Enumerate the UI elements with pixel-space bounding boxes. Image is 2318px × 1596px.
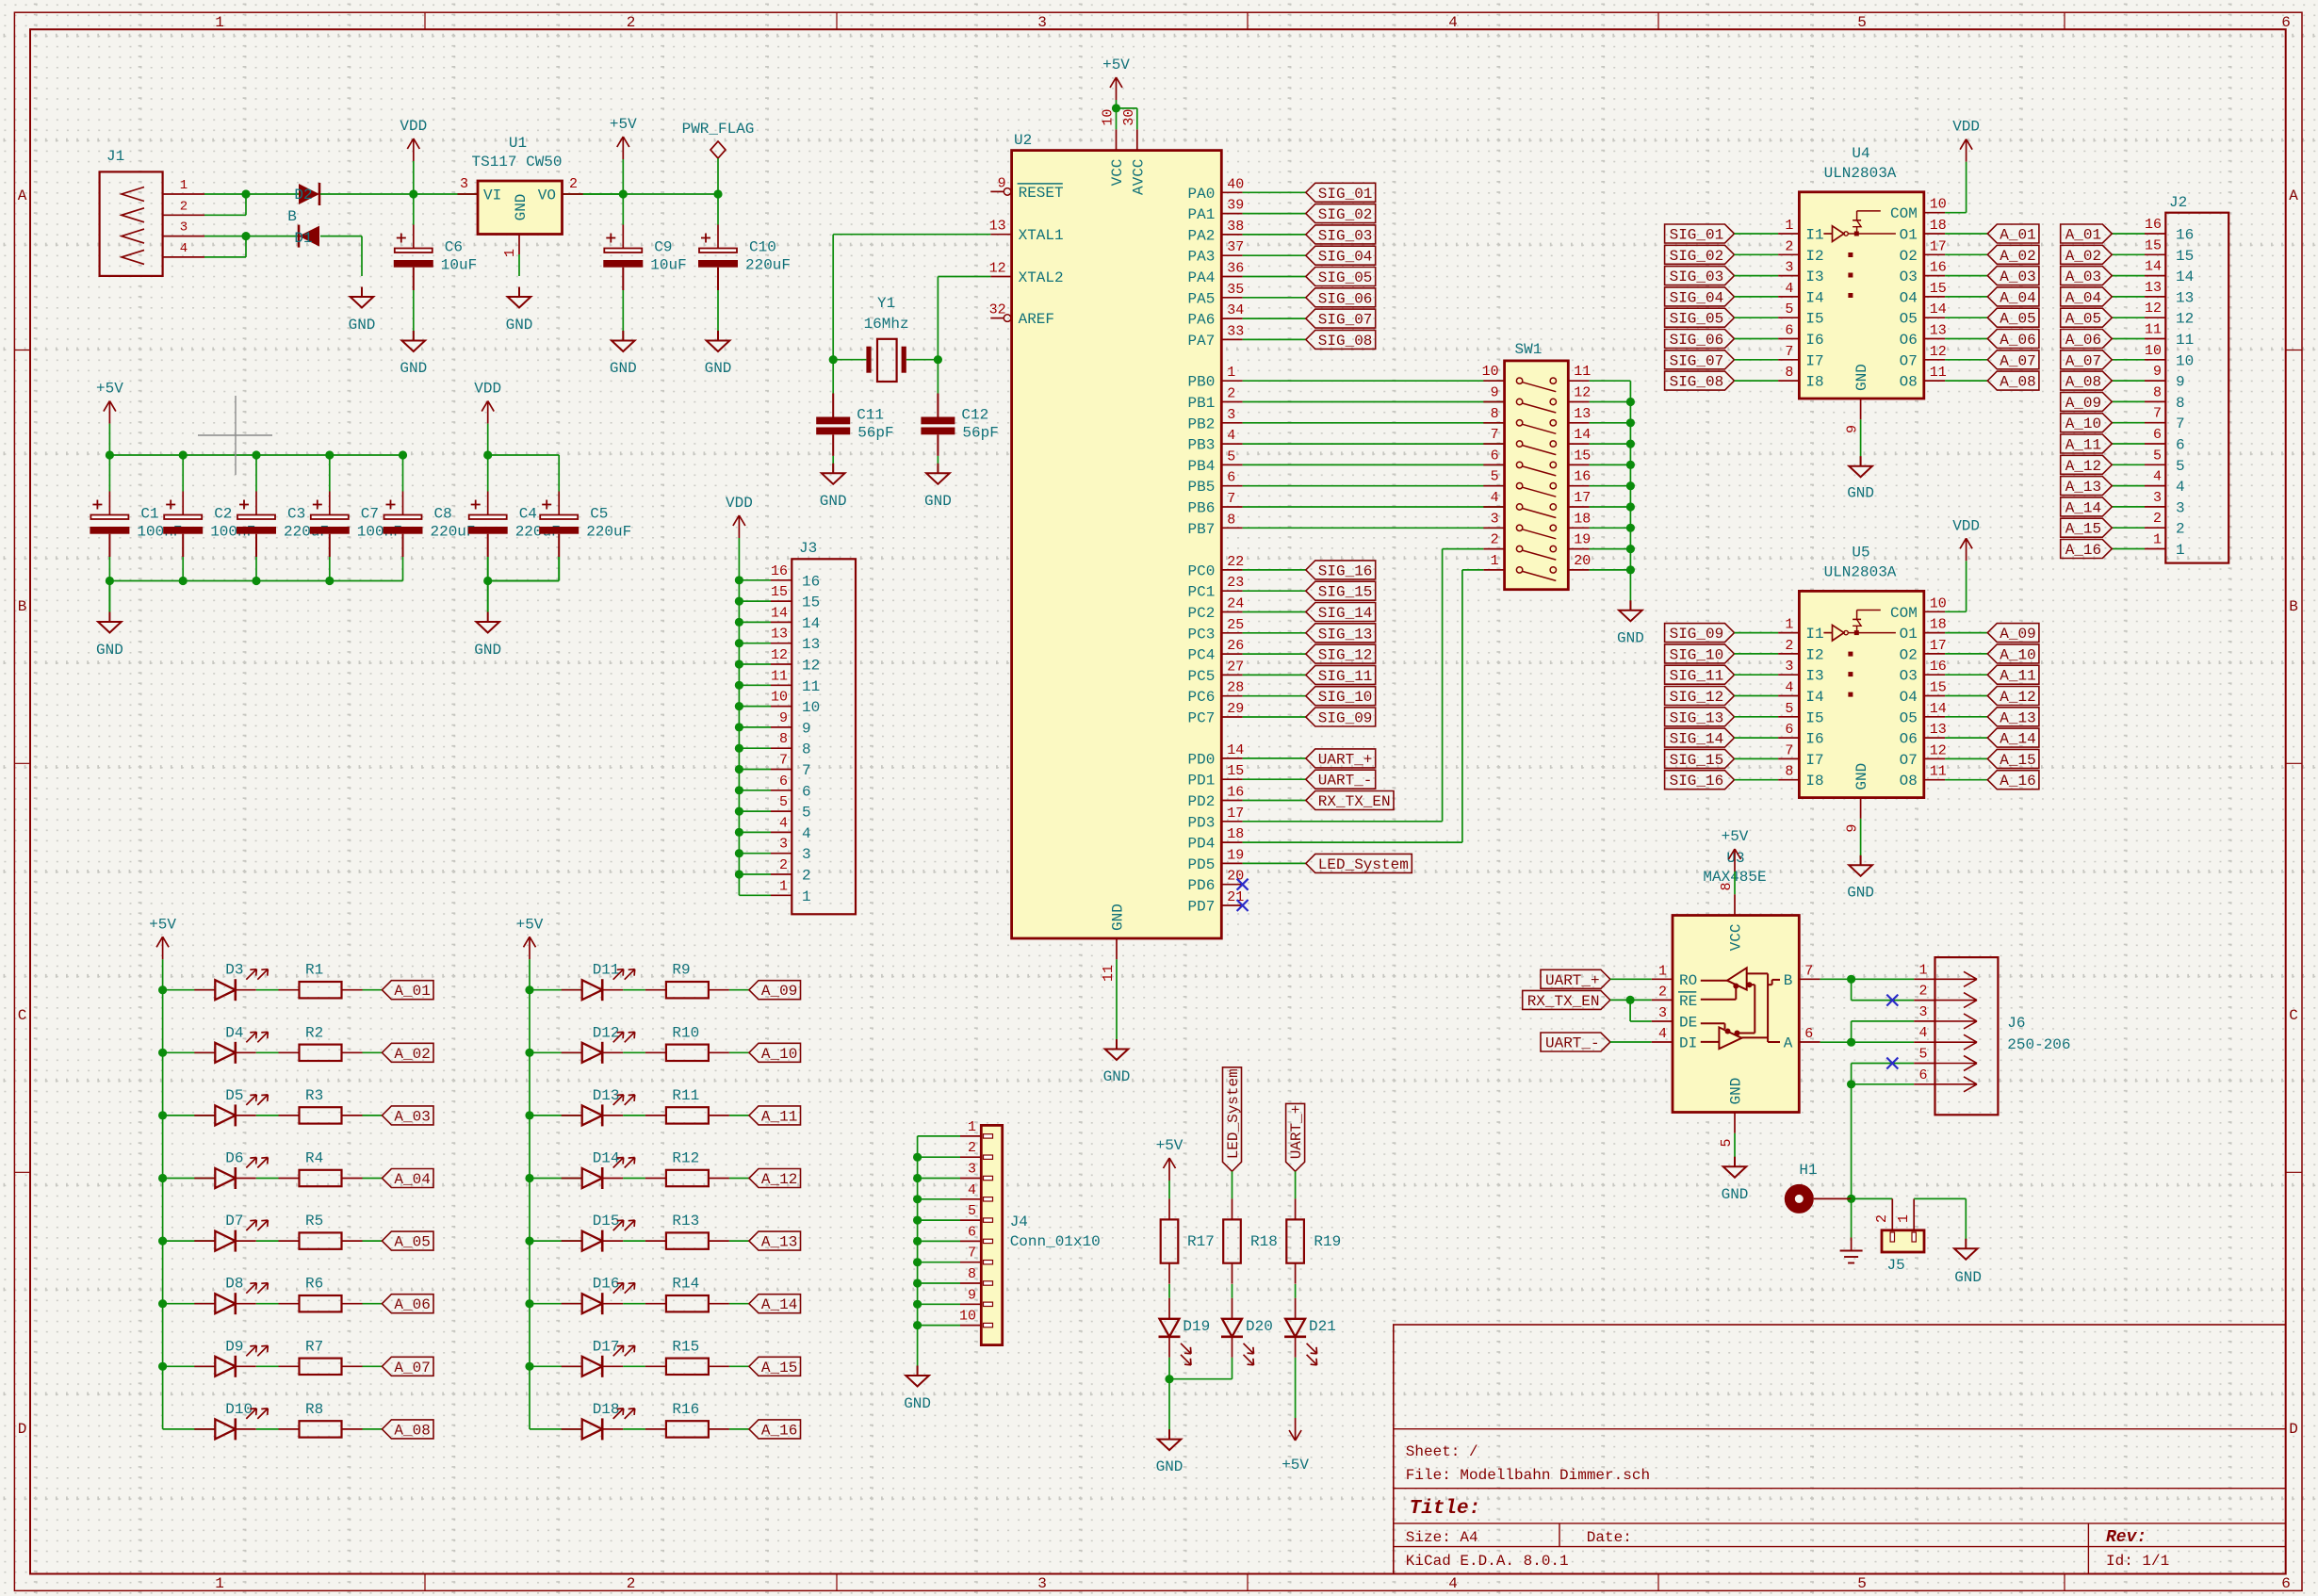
svg-text:10: 10 xyxy=(1930,595,1947,611)
svg-text:A_03: A_03 xyxy=(2000,269,2035,285)
svg-text:GND: GND xyxy=(1617,630,1644,647)
svg-text:A_10: A_10 xyxy=(2000,646,2035,663)
svg-text:RX_TX_EN: RX_TX_EN xyxy=(1318,793,1391,810)
svg-text:1: 1 xyxy=(2153,532,2162,548)
svg-text:I8: I8 xyxy=(1805,374,1823,391)
svg-text:30: 30 xyxy=(1121,109,1137,126)
svg-text:17: 17 xyxy=(1930,638,1947,654)
svg-text:R11: R11 xyxy=(672,1087,699,1104)
svg-text:GND: GND xyxy=(904,1395,931,1412)
svg-text:J4: J4 xyxy=(1010,1213,1028,1230)
svg-text:7: 7 xyxy=(802,762,811,779)
svg-text:23: 23 xyxy=(1227,575,1244,591)
svg-text:SIG_08: SIG_08 xyxy=(1670,374,1724,391)
svg-text:14: 14 xyxy=(802,615,820,632)
svg-text:GND: GND xyxy=(1853,763,1870,790)
svg-text:A_14: A_14 xyxy=(2000,731,2035,748)
svg-text:A_01: A_01 xyxy=(2000,227,2035,244)
svg-text:SIG_08: SIG_08 xyxy=(1318,333,1373,350)
svg-text:R3: R3 xyxy=(305,1087,323,1104)
svg-text:8: 8 xyxy=(1719,882,1735,890)
svg-text:29: 29 xyxy=(1227,701,1244,717)
svg-text:I6: I6 xyxy=(1805,731,1823,748)
svg-text:GND: GND xyxy=(705,360,732,377)
svg-text:6: 6 xyxy=(2281,14,2291,31)
svg-text:+5V: +5V xyxy=(1281,1457,1309,1474)
svg-text:SIG_07: SIG_07 xyxy=(1670,352,1724,369)
svg-text:RX_TX_EN: RX_TX_EN xyxy=(1527,993,1600,1010)
svg-text:R14: R14 xyxy=(672,1276,699,1293)
svg-text:14: 14 xyxy=(771,605,788,621)
svg-text:40: 40 xyxy=(1227,176,1244,192)
svg-text:C: C xyxy=(2289,1007,2298,1024)
svg-text:SIG_02: SIG_02 xyxy=(1670,248,1724,265)
svg-text:1: 1 xyxy=(968,1119,976,1135)
svg-text:GND: GND xyxy=(1103,1068,1131,1085)
svg-text:GND: GND xyxy=(1847,485,1874,502)
svg-text:15: 15 xyxy=(1227,763,1244,779)
svg-text:U2: U2 xyxy=(1014,132,1032,149)
svg-text:PA5: PA5 xyxy=(1187,290,1215,307)
svg-text:14: 14 xyxy=(2176,269,2194,285)
svg-text:SIG_11: SIG_11 xyxy=(1318,668,1373,685)
svg-text:D16: D16 xyxy=(593,1276,620,1293)
svg-text:15: 15 xyxy=(771,584,788,600)
svg-text:SIG_12: SIG_12 xyxy=(1318,647,1373,664)
svg-text:B: B xyxy=(2289,598,2298,615)
svg-text:3: 3 xyxy=(2176,499,2185,516)
svg-text:R10: R10 xyxy=(672,1024,699,1041)
svg-text:6: 6 xyxy=(2281,1575,2291,1592)
svg-text:COM: COM xyxy=(1890,605,1918,622)
svg-text:16: 16 xyxy=(2176,227,2194,244)
svg-text:Size: A4: Size: A4 xyxy=(1406,1529,1478,1546)
svg-text:D: D xyxy=(18,1421,27,1438)
svg-text:38: 38 xyxy=(1227,219,1244,235)
svg-text:7: 7 xyxy=(1227,491,1235,507)
svg-text:AVCC: AVCC xyxy=(1130,159,1147,195)
svg-text:GND: GND xyxy=(924,493,952,510)
svg-text:3: 3 xyxy=(460,176,468,192)
svg-text:16: 16 xyxy=(1574,469,1591,485)
svg-text:D8: D8 xyxy=(225,1276,243,1293)
svg-text:A_10: A_10 xyxy=(2065,415,2101,432)
svg-text:O5: O5 xyxy=(1900,311,1918,328)
svg-text:PD5: PD5 xyxy=(1187,856,1215,873)
svg-text:A: A xyxy=(2289,187,2298,204)
svg-text:5: 5 xyxy=(1491,469,1499,485)
svg-text:A_10: A_10 xyxy=(761,1046,797,1063)
svg-text:PB1: PB1 xyxy=(1187,395,1215,412)
svg-text:10uF: 10uF xyxy=(650,257,686,274)
svg-text:A_06: A_06 xyxy=(2065,332,2101,349)
svg-text:2: 2 xyxy=(627,1575,636,1592)
svg-text:4: 4 xyxy=(1227,428,1235,444)
svg-text:3: 3 xyxy=(968,1162,976,1178)
svg-text:9: 9 xyxy=(2153,364,2162,380)
svg-text:D5: D5 xyxy=(225,1087,243,1104)
svg-text:R9: R9 xyxy=(672,962,690,979)
svg-text:D3: D3 xyxy=(225,962,243,979)
svg-text:35: 35 xyxy=(1227,282,1244,298)
svg-text:7: 7 xyxy=(2153,406,2162,422)
svg-text:A: A xyxy=(18,187,27,204)
svg-text:GND: GND xyxy=(400,360,427,377)
svg-text:PD4: PD4 xyxy=(1187,836,1215,853)
svg-text:A_02: A_02 xyxy=(2065,248,2101,265)
svg-text:SIG_10: SIG_10 xyxy=(1670,646,1724,663)
svg-text:11: 11 xyxy=(1930,365,1947,381)
svg-text:SIG_07: SIG_07 xyxy=(1318,312,1373,329)
svg-text:DE: DE xyxy=(1679,1015,1697,1032)
svg-text:A_09: A_09 xyxy=(2065,395,2101,412)
svg-text:13: 13 xyxy=(802,636,820,653)
svg-text:3: 3 xyxy=(180,220,188,236)
svg-text:A_04: A_04 xyxy=(2000,289,2035,306)
svg-text:D12: D12 xyxy=(593,1024,620,1041)
svg-text:10: 10 xyxy=(1482,364,1499,380)
svg-text:D18: D18 xyxy=(593,1401,620,1418)
svg-text:TS117 CW50: TS117 CW50 xyxy=(471,154,562,171)
svg-text:3: 3 xyxy=(1658,1005,1667,1021)
svg-text:9: 9 xyxy=(968,1287,976,1303)
svg-text:SIG_09: SIG_09 xyxy=(1318,710,1373,727)
svg-text:A_11: A_11 xyxy=(2065,437,2101,454)
svg-text:A_07: A_07 xyxy=(2000,352,2035,369)
svg-text:A_02: A_02 xyxy=(2000,248,2035,265)
svg-text:6: 6 xyxy=(802,783,811,800)
svg-text:A_12: A_12 xyxy=(2000,689,2035,706)
svg-text:PB7: PB7 xyxy=(1187,521,1215,538)
svg-text:56pF: 56pF xyxy=(857,425,893,442)
svg-text:14: 14 xyxy=(1930,701,1947,717)
svg-text:A_03: A_03 xyxy=(394,1108,430,1125)
svg-text:O2: O2 xyxy=(1900,248,1918,265)
svg-text:PA3: PA3 xyxy=(1187,249,1215,266)
svg-text:A_03: A_03 xyxy=(2065,269,2101,285)
svg-text:16: 16 xyxy=(802,573,820,590)
svg-text:O1: O1 xyxy=(1900,626,1918,643)
svg-text:5: 5 xyxy=(802,805,811,822)
svg-text:A_06: A_06 xyxy=(394,1296,430,1313)
svg-text:PD3: PD3 xyxy=(1187,814,1215,831)
svg-text:A_13: A_13 xyxy=(2065,479,2101,496)
svg-text:R12: R12 xyxy=(672,1150,699,1167)
svg-text:3: 3 xyxy=(1785,659,1793,675)
svg-text:17: 17 xyxy=(1574,490,1591,506)
svg-text:4: 4 xyxy=(1658,1026,1667,1042)
svg-text:PB6: PB6 xyxy=(1187,500,1215,517)
svg-text:D4: D4 xyxy=(225,1024,243,1041)
svg-text:18: 18 xyxy=(1930,218,1947,234)
svg-text:C2: C2 xyxy=(214,506,232,523)
svg-text:UART_+: UART_+ xyxy=(1288,1105,1305,1160)
svg-text:R18: R18 xyxy=(1250,1233,1278,1250)
svg-text:+5V: +5V xyxy=(610,116,637,133)
svg-text:O5: O5 xyxy=(1900,709,1918,726)
svg-text:A_07: A_07 xyxy=(2065,352,2101,369)
svg-text:8: 8 xyxy=(1491,406,1499,422)
svg-text:4: 4 xyxy=(2153,469,2162,485)
svg-text:PD6: PD6 xyxy=(1187,877,1215,894)
svg-text:O6: O6 xyxy=(1900,332,1918,349)
svg-text:Date:: Date: xyxy=(1587,1529,1632,1546)
svg-text:3: 3 xyxy=(1037,1575,1047,1592)
svg-text:A_08: A_08 xyxy=(394,1422,430,1439)
svg-text:14: 14 xyxy=(1930,301,1947,318)
svg-text:D6: D6 xyxy=(225,1150,243,1167)
svg-text:2: 2 xyxy=(1918,984,1927,1000)
svg-text:SIG_10: SIG_10 xyxy=(1318,689,1373,706)
svg-text:D2: D2 xyxy=(294,187,312,204)
svg-text:ULN2803A: ULN2803A xyxy=(1824,165,1897,182)
svg-text:ULN2803A: ULN2803A xyxy=(1824,563,1897,580)
svg-text:8: 8 xyxy=(1785,365,1793,381)
svg-text:O8: O8 xyxy=(1900,773,1918,790)
svg-text:SIG_04: SIG_04 xyxy=(1318,249,1373,266)
svg-text:Conn_01x10: Conn_01x10 xyxy=(1010,1233,1101,1250)
svg-text:U4: U4 xyxy=(1852,145,1869,162)
svg-text:C: C xyxy=(18,1007,27,1024)
svg-text:17: 17 xyxy=(1930,238,1947,254)
svg-text:22: 22 xyxy=(1227,554,1244,570)
svg-text:PA6: PA6 xyxy=(1187,312,1215,329)
svg-text:A_08: A_08 xyxy=(2065,374,2101,391)
svg-text:3: 3 xyxy=(802,846,811,863)
svg-text:VDD: VDD xyxy=(400,118,427,135)
svg-text:VO: VO xyxy=(538,187,556,204)
svg-text:R13: R13 xyxy=(672,1213,699,1230)
svg-text:14: 14 xyxy=(1574,427,1591,443)
svg-text:4: 4 xyxy=(802,825,811,842)
svg-text:A_07: A_07 xyxy=(394,1360,430,1376)
svg-text:C9: C9 xyxy=(654,239,672,256)
svg-text:RO: RO xyxy=(1679,972,1697,989)
svg-text:XTAL1: XTAL1 xyxy=(1019,227,1064,244)
svg-text:3: 3 xyxy=(1037,14,1047,31)
svg-text:A_16: A_16 xyxy=(2000,773,2035,790)
svg-text:PC4: PC4 xyxy=(1187,647,1215,664)
svg-text:13: 13 xyxy=(2176,289,2194,306)
svg-text:GND: GND xyxy=(1847,884,1874,901)
svg-text:KiCad E.D.A. 8.0.1: KiCad E.D.A. 8.0.1 xyxy=(1406,1553,1569,1570)
svg-text:Y1: Y1 xyxy=(877,295,895,312)
svg-text:9: 9 xyxy=(802,720,811,737)
svg-text:16Mhz: 16Mhz xyxy=(864,316,909,333)
svg-text:15: 15 xyxy=(1930,680,1947,696)
svg-text:2: 2 xyxy=(802,868,811,885)
svg-text:8: 8 xyxy=(2176,395,2185,412)
svg-text:D9: D9 xyxy=(225,1338,243,1355)
svg-text:GND: GND xyxy=(349,317,376,334)
svg-text:C7: C7 xyxy=(361,506,379,523)
svg-text:O7: O7 xyxy=(1900,352,1918,369)
svg-text:11: 11 xyxy=(802,678,820,695)
svg-text:15: 15 xyxy=(2145,237,2162,253)
svg-text:7: 7 xyxy=(1804,963,1813,979)
svg-text:PB0: PB0 xyxy=(1187,374,1215,391)
svg-text:O7: O7 xyxy=(1900,752,1918,769)
svg-text:GND: GND xyxy=(610,360,637,377)
svg-text:4: 4 xyxy=(779,815,788,831)
svg-text:18: 18 xyxy=(1930,617,1947,633)
svg-text:GND: GND xyxy=(1853,364,1870,391)
svg-text:A_05: A_05 xyxy=(394,1234,430,1251)
svg-text:I2: I2 xyxy=(1805,248,1823,265)
svg-text:J6: J6 xyxy=(2007,1015,2025,1032)
svg-text:R16: R16 xyxy=(672,1401,699,1418)
svg-text:C8: C8 xyxy=(434,506,452,523)
svg-text:A_14: A_14 xyxy=(2065,499,2101,516)
svg-text:1: 1 xyxy=(1658,963,1667,979)
svg-text:COM: COM xyxy=(1890,205,1918,222)
svg-text:6: 6 xyxy=(1804,1026,1813,1042)
svg-text:15: 15 xyxy=(2176,248,2194,265)
svg-text:2: 2 xyxy=(968,1140,976,1156)
svg-text:1: 1 xyxy=(779,878,788,894)
svg-text:LED_System: LED_System xyxy=(1225,1068,1242,1159)
svg-text:PB4: PB4 xyxy=(1187,458,1215,475)
svg-text:+5V: +5V xyxy=(516,916,544,933)
svg-text:PD0: PD0 xyxy=(1187,751,1215,768)
svg-text:2: 2 xyxy=(1227,386,1235,402)
svg-text:5: 5 xyxy=(1785,301,1793,318)
svg-text:A_09: A_09 xyxy=(761,983,797,1000)
svg-text:11: 11 xyxy=(2176,332,2194,349)
svg-text:1: 1 xyxy=(2176,542,2185,559)
svg-text:VDD: VDD xyxy=(726,495,753,512)
svg-text:I8: I8 xyxy=(1805,773,1823,790)
svg-text:GND: GND xyxy=(1722,1186,1749,1203)
svg-text:2: 2 xyxy=(1491,532,1499,548)
svg-text:O4: O4 xyxy=(1900,289,1918,306)
svg-text:4: 4 xyxy=(1785,680,1793,696)
svg-text:D15: D15 xyxy=(593,1213,620,1230)
svg-text:D20: D20 xyxy=(1246,1318,1273,1335)
svg-text:9: 9 xyxy=(2176,374,2185,391)
svg-text:A_05: A_05 xyxy=(2000,311,2035,328)
svg-text:XTAL2: XTAL2 xyxy=(1019,269,1064,286)
svg-text:SIG_12: SIG_12 xyxy=(1670,689,1724,706)
svg-text:UART_+: UART_+ xyxy=(1545,972,1600,989)
svg-text:I3: I3 xyxy=(1805,668,1823,685)
svg-text:I7: I7 xyxy=(1805,752,1823,769)
svg-text:12: 12 xyxy=(2176,311,2194,328)
svg-text:7: 7 xyxy=(779,753,788,769)
svg-text:SIG_05: SIG_05 xyxy=(1670,311,1724,328)
svg-text:+5V: +5V xyxy=(1102,57,1130,73)
svg-text:SIG_16: SIG_16 xyxy=(1670,773,1724,790)
svg-text:SIG_15: SIG_15 xyxy=(1670,752,1724,769)
svg-text:8: 8 xyxy=(968,1266,976,1282)
svg-text:D10: D10 xyxy=(225,1401,253,1418)
svg-text:1: 1 xyxy=(1918,962,1927,978)
svg-text:GND: GND xyxy=(474,642,501,659)
svg-text:I5: I5 xyxy=(1805,311,1823,328)
svg-text:B: B xyxy=(18,598,27,615)
svg-text:O6: O6 xyxy=(1900,731,1918,748)
svg-text:16: 16 xyxy=(1930,260,1947,276)
svg-text:SIG_14: SIG_14 xyxy=(1670,731,1724,748)
svg-text:C12: C12 xyxy=(961,407,988,424)
svg-text:13: 13 xyxy=(1930,722,1947,738)
svg-text:5: 5 xyxy=(968,1203,976,1219)
svg-text:U5: U5 xyxy=(1852,544,1869,561)
svg-text:6: 6 xyxy=(2153,427,2162,443)
svg-text:5: 5 xyxy=(2176,458,2185,475)
svg-text:21: 21 xyxy=(1227,889,1244,905)
svg-text:12: 12 xyxy=(2145,301,2162,317)
svg-text:2: 2 xyxy=(627,14,636,31)
svg-text:PC2: PC2 xyxy=(1187,605,1215,622)
svg-text:GND: GND xyxy=(1954,1269,1982,1286)
svg-text:6: 6 xyxy=(779,774,788,790)
svg-text:O1: O1 xyxy=(1900,227,1918,244)
svg-text:C10: C10 xyxy=(749,239,776,256)
svg-text:+5V: +5V xyxy=(149,916,176,933)
svg-text:10: 10 xyxy=(2176,352,2194,369)
svg-text:R1: R1 xyxy=(305,962,323,979)
svg-text:24: 24 xyxy=(1227,596,1244,612)
svg-text:A_09: A_09 xyxy=(2000,626,2035,643)
svg-text:C11: C11 xyxy=(857,407,884,424)
svg-text:A_15: A_15 xyxy=(761,1360,797,1376)
svg-text:U1: U1 xyxy=(509,135,527,152)
svg-text:File: Modellbahn Dimmer.sch: File: Modellbahn Dimmer.sch xyxy=(1406,1467,1650,1484)
svg-text:SIG_05: SIG_05 xyxy=(1318,269,1373,286)
svg-text:7: 7 xyxy=(2176,415,2185,432)
svg-text:O3: O3 xyxy=(1900,668,1918,685)
svg-text:4: 4 xyxy=(1785,281,1793,297)
svg-text:1: 1 xyxy=(215,1575,224,1592)
svg-text:GND: GND xyxy=(96,642,123,659)
svg-text:GND: GND xyxy=(820,493,847,510)
svg-text:SIG_03: SIG_03 xyxy=(1318,227,1373,244)
svg-text:6: 6 xyxy=(2176,437,2185,454)
svg-text:2: 2 xyxy=(1874,1214,1890,1223)
svg-text:12: 12 xyxy=(802,658,820,675)
svg-text:D7: D7 xyxy=(225,1213,243,1230)
svg-text:GND: GND xyxy=(513,194,530,221)
svg-text:8: 8 xyxy=(1227,512,1235,528)
svg-text:R4: R4 xyxy=(305,1150,323,1167)
svg-text:9: 9 xyxy=(998,175,1006,191)
svg-text:R15: R15 xyxy=(672,1338,699,1355)
svg-text:A_12: A_12 xyxy=(2065,458,2101,475)
svg-text:H1: H1 xyxy=(1799,1162,1817,1179)
svg-text:B: B xyxy=(287,208,297,225)
svg-text:A_05: A_05 xyxy=(2065,311,2101,328)
svg-text:11: 11 xyxy=(1930,764,1947,780)
svg-text:GND: GND xyxy=(1156,1458,1183,1475)
svg-text:12: 12 xyxy=(1930,742,1947,758)
svg-text:R6: R6 xyxy=(305,1276,323,1293)
svg-text:PWR_FLAG: PWR_FLAG xyxy=(682,121,755,138)
svg-text:10: 10 xyxy=(802,699,820,716)
svg-text:Rev:: Rev: xyxy=(2106,1528,2147,1547)
svg-text:C4: C4 xyxy=(519,506,537,523)
svg-text:SIG_04: SIG_04 xyxy=(1670,289,1724,306)
svg-text:10: 10 xyxy=(1930,197,1947,213)
svg-text:26: 26 xyxy=(1227,638,1244,654)
svg-text:A_13: A_13 xyxy=(761,1234,797,1251)
svg-text:J2: J2 xyxy=(2169,194,2187,211)
svg-text:A_12: A_12 xyxy=(761,1171,797,1188)
svg-text:8: 8 xyxy=(802,741,811,758)
svg-text:37: 37 xyxy=(1227,239,1244,255)
svg-text:SIG_09: SIG_09 xyxy=(1670,626,1724,643)
svg-text:PC7: PC7 xyxy=(1187,710,1215,727)
